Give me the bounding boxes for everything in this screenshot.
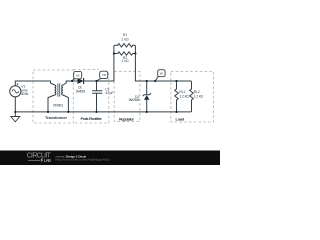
svg-text:vo: vo [160,72,164,76]
svg-text:1.2 kΩ: 1.2 kΩ [179,94,189,98]
svg-text:47 µF: 47 µF [105,91,113,95]
svg-text:1 kΩ: 1 kΩ [121,59,129,63]
svg-text:Load: Load [176,117,185,122]
svg-text:1.2 kΩ: 1.2 kΩ [194,94,204,98]
svg-text:XFMR1: XFMR1 [53,103,64,107]
svg-text:60 Hz: 60 Hz [21,92,29,96]
svg-text:1 kΩ: 1 kΩ [121,38,129,42]
svg-text:Transformer: Transformer [45,115,67,120]
svg-text:Peak Rectifier: Peak Rectifier [80,116,102,121]
svg-text:1N4740A: 1N4740A [128,98,140,102]
svg-text:va: va [102,73,106,77]
svg-text:1N4001: 1N4001 [76,89,86,93]
svg-text:vs: vs [76,73,80,77]
svg-text:http:⁄⁄circuitlab.com⁄c⁄hq9t6g: http:⁄⁄circuitlab.com⁄c⁄hq9t6ggxhk2u [56,157,111,161]
svg-text:Regulator: Regulator [119,116,134,121]
svg-text:R1: R1 [123,33,127,37]
svg-text:LAB: LAB [44,158,51,163]
